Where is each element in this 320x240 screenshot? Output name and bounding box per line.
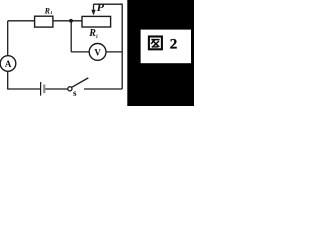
potentiometer R2 body	[82, 16, 111, 27]
switch S lever	[72, 78, 88, 87]
resistor R1	[35, 16, 53, 27]
voltmeter U2	[89, 44, 106, 61]
wire voltmeter right	[106, 51, 122, 53]
svg-text:2: 2	[170, 37, 178, 53]
svg-text:P: P	[97, 0, 105, 14]
glyph 图	[149, 37, 162, 50]
svg-text:1: 1	[50, 10, 52, 15]
svg-text:A: A	[5, 59, 12, 69]
wire left vertical top	[7, 21, 9, 56]
wire R1 to pot	[53, 20, 82, 22]
wire switch to right corner	[84, 88, 122, 90]
wire left vertical bottom	[8, 71, 41, 89]
wire battery to switch	[45, 88, 67, 90]
wire node to voltmeter vertical	[70, 21, 72, 52]
ammeter U1	[0, 56, 16, 72]
black margin region	[127, 0, 194, 106]
battery BT1 short thick plate	[43, 85, 45, 94]
switch S pivot	[68, 87, 72, 91]
wire top-left horizontal	[8, 20, 35, 22]
node junction dot	[69, 19, 73, 23]
wire voltmeter left	[71, 51, 89, 53]
battery BT1 long plate	[40, 82, 42, 96]
svg-text:1: 1	[96, 35, 99, 40]
figure label box	[139, 28, 192, 64]
wire wiper to right vertical	[94, 4, 123, 89]
wiper arrow P	[93, 4, 95, 10]
svg-text:s: s	[73, 88, 77, 98]
svg-text:V: V	[94, 47, 101, 57]
